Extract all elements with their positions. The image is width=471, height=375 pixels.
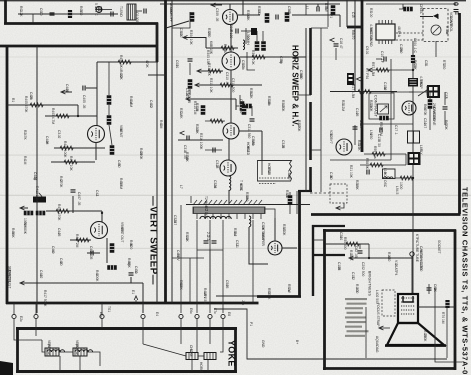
wire junction to tube [101,211,103,222]
label aquadag [375,336,379,353]
svg-text:470K: 470K [423,108,427,117]
resistor R314 zigzag [210,119,223,123]
svg-text:TP1: TP1 [329,12,333,18]
wire arrow stub2 [20,207,28,209]
fold crease line 4 [0,248,471,249]
label value callout 90 [413,60,417,70]
label heater [394,260,398,276]
junction kine line [412,177,414,179]
label value callout 68 [444,92,448,99]
wire V1 plate up [229,4,231,10]
svg-text:470K: 470K [281,104,285,113]
wire audio out right [292,14,340,16]
svg-text:HOLD: HOLD [246,146,250,156]
label R415 R416 [23,218,27,235]
svg-text:DAMPER: DAMPER [261,232,265,247]
svg-text:5: 5 [351,16,355,18]
label value callout 84 [213,180,217,189]
terminal E3 yoke strip [100,314,104,318]
label value callout 0 [119,70,123,80]
wire term to neck [411,256,413,294]
label R305 [324,3,328,13]
wire osc right [239,130,262,132]
label value callout 31 [329,172,333,180]
svg-text:.01: .01 [175,64,179,69]
audio section box left border [4,0,7,24]
arrow grid tp2 [195,83,200,87]
arrow row3 tp [186,97,191,101]
svg-text:C405 .05: C405 .05 [82,95,86,109]
svg-text:10: 10 [241,64,245,68]
label value callout 35 [423,118,427,128]
label yoke winding B [75,340,79,357]
label C312 [239,99,243,113]
label V7 [261,228,265,247]
label 1000 [399,182,403,190]
svg-text:.02: .02 [33,176,37,181]
svg-text:HOR OSC: HOR OSC [383,172,387,188]
terminal E5 yoke strip [179,314,183,318]
svg-text:2.2K: 2.2K [19,10,23,18]
wire osc left run [178,139,223,141]
wire plate pair top2 [262,31,264,41]
svg-text:2.2: 2.2 [206,236,210,241]
arrow yoke feed [20,281,25,285]
label value callout 21 [329,12,333,18]
wire c0 link [102,9,112,11]
resistor R323 [288,195,293,205]
svg-text:250: 250 [369,134,373,140]
svg-text:VERT OUT: VERT OUT [120,226,124,243]
label value callout 83 [179,108,183,119]
label C314 [247,124,251,138]
resistor R301 [190,12,195,22]
wire hv cage link [305,28,307,61]
label C306 [229,24,233,38]
wire contrast out [390,130,392,160]
wire r1 link [399,4,403,9]
svg-text:.05: .05 [225,284,229,289]
wire mid right bus [297,94,306,96]
wire contrast drop [390,59,392,130]
svg-text:C304 .1 C: C304 .1 C [413,38,417,53]
svg-text:TS1: TS1 [107,306,111,312]
label value callout 85 [245,192,249,201]
wire arrow to tube [211,4,222,6]
wire lower mid drop [189,258,191,303]
picture tube V10 neck [398,294,418,323]
svg-text:10: 10 [149,104,153,108]
label C322 [206,232,210,241]
wire yoke bottom stub d [207,360,209,372]
component box C307 [251,28,257,35]
label R302z [251,50,255,65]
resistor R304 [285,12,290,22]
svg-text:R304 10K: R304 10K [189,30,193,45]
capacitor C30 crt [427,288,432,290]
svg-text:100K: 100K [95,274,99,283]
svg-text:820: 820 [129,244,133,250]
wire c306 run2 [241,30,252,32]
label value callout 48 [129,240,133,249]
svg-text:.005: .005 [135,16,139,23]
svg-text:R407 2M: R407 2M [75,234,79,248]
label C405 [82,95,86,109]
wire c306 run [231,30,233,32]
svg-text:.05: .05 [337,266,341,271]
svg-text:4.7K: 4.7K [425,90,429,98]
svg-text:56: 56 [279,60,283,64]
label volume control [449,12,453,32]
label R415b [203,288,207,304]
svg-text:R407 10K: R407 10K [69,156,73,171]
label R19 [432,103,436,126]
capacitor C409 [91,251,93,256]
wire c24 d [444,111,446,125]
svg-text:YOKE: YOKE [227,340,237,367]
thin box right of crt [435,288,462,362]
label value callout 100 [29,92,33,100]
wire vert box drop a [36,283,38,313]
wire l10 out [395,177,413,179]
wire afc diode pair [247,52,255,70]
wire lower run2 [51,161,95,163]
label value callout 70 [131,290,135,294]
yoke winding B body [73,348,87,356]
wire lower grid run [54,147,105,149]
wire grid drop [235,99,237,110]
label R302 [246,10,250,21]
label value callout 51 [39,270,43,279]
svg-text:PARTS LIST: PARTS LIST [8,270,12,289]
capacitor C8 [334,44,339,46]
wire focus stub [379,327,390,329]
wire osc coil row2 [360,164,406,166]
svg-text:FOCUS STRAP: FOCUS STRAP [376,303,380,327]
label L402 [375,290,379,304]
label HT P34 [365,68,369,79]
svg-text:150: 150 [442,64,446,70]
label R306 [209,41,213,55]
capacitor C411 [129,273,134,275]
wire C406 drop [72,196,74,213]
label value callout 59 [305,6,309,10]
svg-text:270K: 270K [423,334,427,343]
label value callout 15 [179,185,183,189]
wire osc coil drop [405,154,407,165]
arrow audio input [211,3,216,7]
label value callout 40 [23,130,27,140]
wire j4 diag [418,90,427,96]
wire terminal E5 lead down [180,319,182,328]
label value callout 69 [457,108,461,117]
wire plate rail [108,62,110,95]
wire mid bus right [330,91,397,93]
wire R407 run [70,239,91,241]
capacitor C303 [276,15,278,20]
svg-text:SND: SND [119,10,123,18]
yoke box bottom border [16,370,237,373]
label value callout 78 [251,136,255,146]
wire kine drive vertical [412,41,414,294]
transformer T2 horiz output core [193,200,265,214]
yoke horiz winding A [186,353,198,360]
label C202 [361,262,365,276]
label R411 [69,156,73,171]
svg-text:SOCKET: SOCKET [437,240,441,254]
wire yoke diagonal [143,344,186,356]
svg-text:R403 4.7M: R403 4.7M [51,108,55,124]
label value callout 57 [287,6,291,14]
rail left of divider [156,24,158,303]
wire bus drop [209,250,211,283]
wire vert input top [97,61,158,63]
label value callout 7 [281,100,285,112]
label R316 [199,133,203,150]
wire yoke A feed [42,340,45,352]
svg-text:R17 1.5M: R17 1.5M [351,84,355,99]
svg-text:1.: 1. [424,64,428,67]
label value callout 62 [79,6,83,15]
resistor R306 zigzag [221,46,234,50]
svg-text:HT P34: HT P34 [365,68,369,79]
svg-text:B+: B+ [295,340,299,344]
label value callout 16 [285,190,289,199]
label vert size [43,290,47,307]
capacitor C13 [380,128,382,133]
label value callout 82 [279,56,283,64]
terminal E8 yoke strip [221,314,225,318]
label value callout 23 [369,8,373,17]
wire hv top link [311,27,328,29]
capacitor C313 [250,119,255,121]
wire audio strip stub [32,14,34,23]
svg-text:50: 50 [117,164,121,168]
wire C409 run [87,252,100,254]
label value callout 95 [349,250,353,261]
label value callout 73 [249,322,253,326]
capacitor C24b [443,107,448,109]
picture tube V10 flare [387,323,444,345]
capacitor C1 audio [99,7,101,12]
resistor R409 zigzag [60,146,73,150]
svg-text:1.8M: 1.8M [129,100,133,108]
capacitor C403 [83,86,85,91]
label R50y [343,237,347,250]
wire drop to term1 [142,283,144,313]
picture tube box right border [454,230,457,371]
label value callout 11 [185,152,189,162]
paper top edge [0,0,466,1]
svg-text:100: 100 [369,12,373,18]
wire plate pair top [256,31,258,41]
label R319 [195,103,199,112]
label C10 [380,51,384,63]
arrow vert test point [61,90,66,94]
label C411 [134,266,138,274]
svg-text:1M: 1M [445,30,449,35]
label CONTRAST [374,95,378,118]
resistor R1000 zigzag [400,176,413,180]
wire cath run [95,142,97,160]
tube V7 damper [268,241,282,255]
label value callout 13 [239,180,243,192]
svg-text:47K: 47K [195,128,199,135]
wire term drop b [35,303,37,314]
svg-text:1M: 1M [159,124,163,129]
label value callout 94 [437,240,441,254]
svg-text:.1: .1 [235,244,239,247]
label value callout 9 [297,120,301,132]
svg-text:C407 .05: C407 .05 [77,192,81,206]
wire r57 run [368,69,413,71]
wire vol drop [435,41,437,57]
label vert hold [35,186,39,202]
wire terminal E2 lead down [35,319,37,328]
label value callout 28 [355,108,359,117]
wire yoke lead E6 [196,328,198,352]
label value callout 34 [423,104,427,116]
wire c316 [205,149,222,151]
yoke box left border [16,327,19,372]
rail mid horiz column [305,28,307,192]
wire r316 link [236,105,239,107]
arrow vert linearity [20,206,25,210]
resistor R403 zigzag [56,114,69,118]
wire c30 link [428,284,430,294]
svg-text:R21 10K: R21 10K [349,165,353,179]
svg-text:220K: 220K [139,152,143,161]
label C407 [77,192,81,206]
wire V1 plate right [238,14,260,16]
wire caps bus [197,249,223,251]
wire yoke vert winding leads [14,328,42,340]
wire c24 link [444,92,446,105]
label value callout 87 [233,228,237,237]
vert sweep box bottom jog [257,295,301,298]
dashed box video pe [330,184,347,203]
resistor R411 zigzag [64,160,77,164]
label R59 [373,146,377,159]
svg-text:56K: 56K [185,156,189,163]
label value callout 66 [424,60,428,67]
svg-text:140: 140 [287,174,291,180]
svg-text:10MH: 10MH [246,36,250,45]
resistor R60b [428,99,433,109]
resistor R309 [255,41,260,51]
label value callout 30 [357,140,361,151]
label video bias [349,165,353,179]
picture tube V10 screen base [385,344,446,347]
svg-text:C306 180: C306 180 [229,24,233,38]
label value callout 110 [189,308,193,314]
wire R403 run [45,115,97,117]
potentiometer contrast [378,104,389,114]
label value callout 6 [249,88,253,99]
label value callout 20 [297,232,301,244]
svg-text:HORIZ: HORIZ [199,362,203,372]
vert sweep box top border [0,45,156,48]
label R314 [193,101,197,115]
picture tube box left border [323,229,326,370]
label value callout 108 [19,316,23,322]
wire c411 drop [130,277,132,283]
svg-text:(W): (W) [75,344,79,349]
potentiometer vert hold [33,193,46,203]
wire xfmr tap drop d [180,205,182,313]
svg-text:R1: R1 [11,98,15,102]
resistor R313b zigzag [208,69,221,73]
resistor R02 strip [68,10,72,18]
junction crt row [368,257,370,259]
capacitor C0b [144,9,146,14]
label value callout 38 [351,272,355,280]
capacitor C11 [367,170,369,175]
label audio takeoff [169,3,173,22]
label value callout 29 [329,130,333,144]
svg-text:C82 .05: C82 .05 [354,246,358,258]
arrow bottom link [134,296,138,300]
svg-text:100: 100 [355,288,359,294]
svg-text:470: 470 [387,256,391,262]
wire audio strip left bus [18,13,93,15]
arrow retrace [336,206,341,210]
rail right section inner [354,0,356,91]
bottom-left page corner shadow [0,361,13,375]
svg-text:R417 500K: R417 500K [43,290,47,307]
resistor R59 zigzag [372,152,385,156]
wire kine branch [391,91,413,93]
label value callout 88 [369,100,373,112]
resistor R320 [242,105,247,115]
wire xfmr tap drop a [196,220,198,313]
label C12 [359,120,363,129]
picture tube V10 inner gun [403,296,413,302]
label value callout 109 [99,312,103,318]
label value callout 55 [179,28,183,37]
label value callout 33 [395,186,399,195]
picture tube V10 base dots [401,298,415,314]
label R304 [189,30,193,45]
wire crt row1 [325,243,369,245]
dashed line boundary [310,192,345,194]
label C2 value [94,3,98,16]
svg-text:3.3M: 3.3M [119,182,123,190]
resistor R408 [107,115,112,125]
resistor R1 top [403,7,413,12]
svg-text:27K: 27K [413,64,417,71]
rail B+ vertical x37 [36,46,38,313]
vert sweep box bottom border [6,302,259,305]
svg-text:270: 270 [207,32,211,38]
wire grid left run [7,104,78,106]
label R50 [379,122,383,136]
arrow afc test point 1 [183,35,188,39]
horiz sweep boundary dashed segment 3 [309,167,312,192]
wire tp1 stub [183,38,206,49]
wire row3 [187,98,236,100]
box contrast control [369,93,394,119]
label value callout 39 [423,330,427,342]
wire right drop [261,131,263,160]
label value callout 53 [225,280,229,289]
resistor R50 [379,116,389,121]
svg-text:C409 .05: C409 .05 [89,246,93,260]
wire damper right [282,247,297,249]
wire terminal E4 lead down [142,319,144,328]
label C318 [183,145,187,159]
label value callout 2 [11,98,15,102]
